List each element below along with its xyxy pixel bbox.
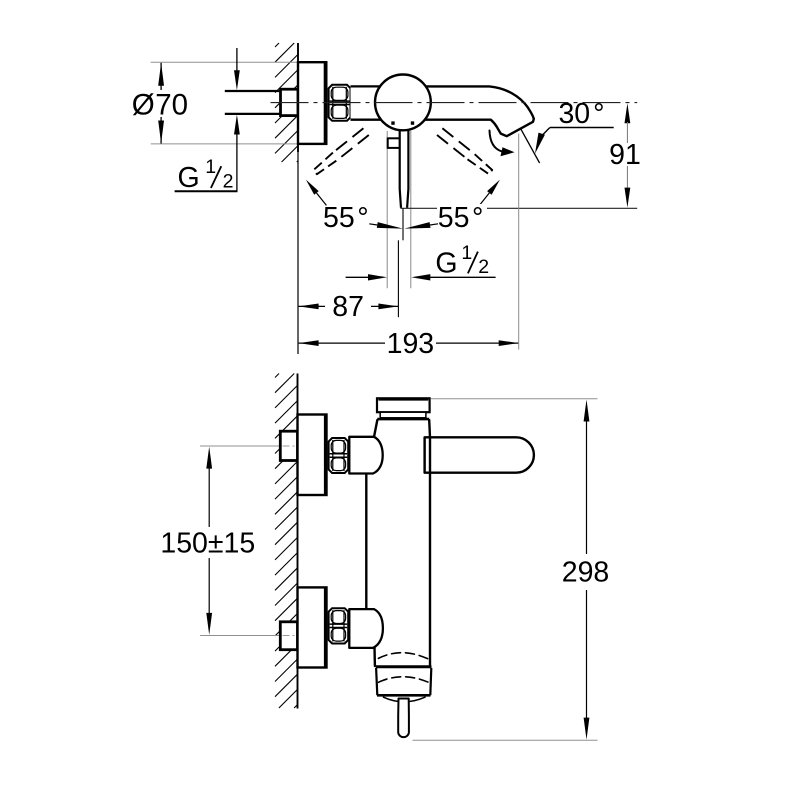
svg-text:150±15: 150±15 <box>160 527 255 559</box>
svg-text:87: 87 <box>332 291 364 323</box>
svg-text:2: 2 <box>478 256 489 278</box>
svg-text:G: G <box>178 162 200 194</box>
svg-text:G: G <box>435 248 457 280</box>
svg-text:193: 193 <box>387 328 435 360</box>
svg-text:1: 1 <box>461 242 472 264</box>
svg-text:2: 2 <box>223 170 234 192</box>
svg-text:298: 298 <box>562 557 610 589</box>
svg-text:Ø: Ø <box>132 88 155 121</box>
svg-text:70: 70 <box>155 88 188 121</box>
svg-text:55°: 55° <box>323 202 369 234</box>
svg-text:91: 91 <box>609 139 641 171</box>
svg-text:1: 1 <box>205 156 216 178</box>
svg-text:55°: 55° <box>438 202 484 234</box>
svg-text:30°: 30° <box>558 98 604 130</box>
